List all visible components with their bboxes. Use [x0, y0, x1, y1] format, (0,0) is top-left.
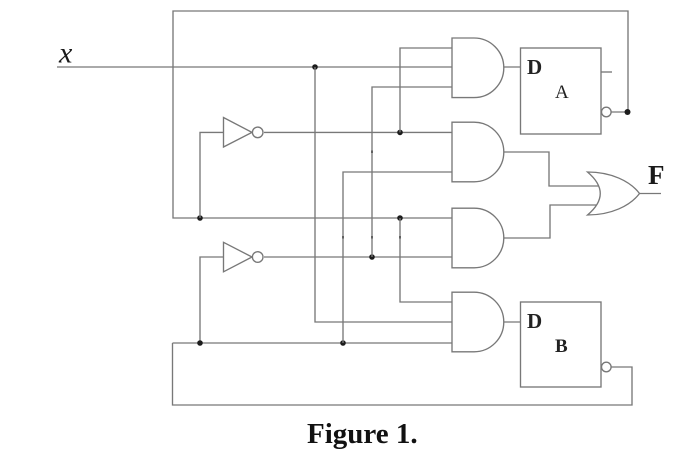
svg-text:B: B	[555, 336, 568, 357]
node x-line junction	[312, 64, 318, 70]
svg-text:x: x	[58, 37, 73, 70]
node flip-flop B Q' bubble	[602, 362, 612, 372]
wire x branch to AND4	[315, 67, 452, 322]
wire AND4 output	[504, 321, 521, 323]
svg-text:D: D	[527, 55, 542, 79]
and-gate G4	[452, 292, 504, 352]
wire AND1 output	[504, 66, 521, 68]
wire B-feedback bottom loop	[173, 343, 633, 405]
wire B line	[173, 342, 453, 344]
wire inverter U1 output	[264, 131, 452, 133]
wire OR output F	[640, 193, 662, 195]
and-gate G1	[452, 38, 504, 98]
node junction A-feedback branch to AND4	[397, 215, 403, 221]
wire B branch to AND2	[343, 172, 452, 343]
node junction U1 output branch	[397, 130, 403, 136]
svg-text:A: A	[555, 82, 569, 103]
svg-text:F: F	[648, 160, 665, 190]
wire B' branch to AND1	[372, 87, 452, 257]
wire AND2 output to OR	[504, 152, 600, 186]
node junction U2 output branch	[369, 254, 375, 260]
wire inverter U2 input	[200, 257, 223, 343]
flip-flop A	[521, 48, 602, 134]
wire inverter U2 output	[264, 256, 452, 258]
node flip-flop A Q' bubble	[602, 107, 612, 117]
svg-text:Figure 1.: Figure 1.	[307, 418, 418, 450]
wire A bubble to feedback	[611, 111, 628, 113]
inverter U2	[224, 242, 264, 271]
flip-flop B	[521, 302, 602, 387]
wire inverter U1 input	[200, 132, 223, 218]
wire flip-flop A Q stub	[601, 71, 612, 73]
node junction B line at inverter U2 input	[197, 340, 203, 346]
wire AND3 output to OR	[504, 205, 600, 238]
wire x input line	[57, 66, 452, 68]
wire A-feedback top loop	[173, 11, 628, 218]
and-gate G3	[452, 208, 504, 268]
wire A' branch to AND1	[400, 48, 452, 132]
node junction B line branch to AND2	[340, 340, 346, 346]
node junction A feedback corner	[625, 109, 631, 115]
node crossing tick marks	[342, 151, 401, 239]
or-gate G5	[588, 172, 640, 215]
and-gate G2	[452, 122, 504, 182]
node junction A-feedback at inverter U1 input	[197, 215, 203, 221]
svg-text:D: D	[527, 309, 542, 333]
wire A branch to AND4	[400, 218, 452, 302]
inverter U1	[224, 118, 264, 148]
